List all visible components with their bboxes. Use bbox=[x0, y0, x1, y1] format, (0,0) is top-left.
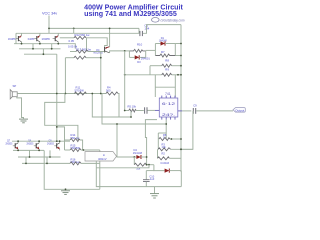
wire drop to C2 bbox=[138, 28, 140, 33]
transistor Q2 MJ2955 bbox=[34, 33, 40, 43]
capacitor C3 bbox=[145, 107, 155, 113]
wire bottom bank bus T1 bbox=[12, 140, 70, 142]
resistor R17 parallel bbox=[134, 157, 154, 166]
title text bbox=[84, 4, 183, 19]
svg-text:1N4148: 1N4148 bbox=[133, 151, 143, 155]
diode D1 bbox=[155, 41, 175, 45]
svg-text:C9: C9 bbox=[193, 104, 197, 108]
speaker SP1 bbox=[10, 84, 17, 99]
junction Q4 emitter rail bbox=[109, 28, 111, 30]
input net label box bbox=[85, 152, 117, 161]
wire bottom bank bus T2 bbox=[13, 149, 44, 151]
transistor Q7 2N3055 bbox=[13, 141, 18, 150]
svg-text:VCC 34v: VCC 34v bbox=[42, 12, 57, 16]
svg-text:1N4001: 1N4001 bbox=[141, 57, 151, 61]
svg-text:1uF: 1uF bbox=[150, 177, 155, 181]
svg-text:R8: R8 bbox=[165, 59, 169, 63]
wire bottom line bbox=[96, 161, 181, 187]
capacitor C2 bbox=[140, 24, 150, 36]
svg-text:SP: SP bbox=[13, 84, 17, 88]
wire op-amp output bbox=[182, 110, 191, 112]
svg-text:D3: D3 bbox=[137, 60, 141, 64]
junction dot Q4 line bbox=[124, 50, 126, 52]
wire top bus to speaker column V3 bbox=[56, 54, 58, 141]
wire D4 node down to R17 bbox=[146, 157, 148, 165]
svg-text:R12 560 1w: R12 560 1w bbox=[75, 33, 91, 37]
svg-text:circuitstoday.com: circuitstoday.com bbox=[161, 18, 185, 22]
wire long vertical V8 bbox=[124, 51, 126, 111]
wire to op-amp right bbox=[174, 75, 176, 97]
junction dots speaker line bbox=[56, 93, 58, 95]
resistor R6 bbox=[159, 138, 181, 141]
svg-text:R9: R9 bbox=[165, 68, 169, 72]
resistor R3 bbox=[158, 148, 193, 151]
wire VCC drop bbox=[48, 16, 50, 34]
wire bottom bank bus T4 bbox=[22, 162, 70, 164]
svg-text:1N4148: 1N4148 bbox=[159, 40, 168, 43]
ground 1 bbox=[19, 119, 28, 123]
diode D3 bbox=[129, 51, 145, 60]
svg-text:6·12: 6·12 bbox=[162, 102, 175, 106]
svg-text:104: 104 bbox=[144, 27, 149, 31]
svg-text:R2: R2 bbox=[162, 152, 166, 156]
wire bank bus2 bbox=[19, 48, 61, 50]
wire Q3 to R12 bbox=[60, 37, 74, 39]
svg-text:Output: Output bbox=[235, 108, 244, 112]
svg-text:D2 1N4148: D2 1N4148 bbox=[161, 162, 170, 165]
resistor R9 bbox=[124, 73, 181, 76]
svg-text:400mV: 400mV bbox=[98, 157, 107, 161]
wire V5 and y117 line bbox=[92, 94, 131, 118]
wire under input box bbox=[96, 165, 149, 168]
resistor R7 bbox=[155, 54, 175, 57]
wire ground1 stem bbox=[17, 97, 24, 119]
wire bank bus3 bbox=[24, 53, 57, 55]
wire R6 col top bbox=[158, 132, 166, 134]
ground 3 bbox=[150, 187, 159, 198]
wire ticks between buses bbox=[32, 44, 34, 49]
wire output feedback down-left bbox=[181, 111, 193, 149]
op-amp U1 DIP package bbox=[155, 96, 182, 120]
svg-text:R5 10k: R5 10k bbox=[128, 105, 137, 109]
capacitor C10 bbox=[143, 171, 155, 187]
wire IC pin1 down to D4 node bbox=[145, 120, 157, 157]
wire V10 staircase left bbox=[45, 94, 78, 141]
svg-text:R7: R7 bbox=[161, 50, 165, 54]
ticks bottom bank bbox=[29, 150, 31, 157]
svg-text:MJ2955: MJ2955 bbox=[8, 37, 16, 41]
wire op-amp top link bbox=[155, 86, 175, 88]
svg-text:24?.: 24?. bbox=[162, 113, 175, 117]
wire D1 loop right bbox=[174, 44, 176, 56]
wire V9 bbox=[100, 52, 102, 94]
wire input tip bbox=[117, 156, 137, 158]
resistor R5 bbox=[124, 109, 144, 112]
wire y127 branch bbox=[57, 127, 65, 150]
wire top bus of PNP bank bbox=[16, 32, 139, 34]
wire D1 loop left bbox=[154, 44, 156, 56]
wire op-amp pin4 drop bbox=[165, 120, 167, 139]
wire V7 to input tip bbox=[116, 124, 118, 157]
resistor R11 bbox=[74, 92, 86, 95]
svg-text:2N3055: 2N3055 bbox=[47, 143, 54, 145]
transistor Q4 MJ2955 driver bbox=[105, 28, 125, 52]
wire V6 staircase bbox=[102, 94, 166, 125]
wire to D1 column bbox=[146, 49, 156, 51]
diode D4 bbox=[136, 155, 146, 159]
wire C2 to rail B bbox=[143, 25, 181, 34]
watermark ellipse logo bbox=[152, 18, 185, 23]
resistor R10 bbox=[129, 49, 145, 52]
svg-text:2N3055: 2N3055 bbox=[27, 143, 34, 145]
svg-text:using 741 and MJ2955/3055: using 741 and MJ2955/3055 bbox=[84, 10, 177, 18]
wire V4 bbox=[64, 58, 66, 94]
transistor Q1 MJ2955 bbox=[16, 33, 22, 43]
svg-text:0.05: 0.05 bbox=[69, 39, 75, 43]
wire rail drop to bus bbox=[73, 28, 75, 33]
svg-text:MJ2955: MJ2955 bbox=[42, 37, 50, 41]
transistor Q8 2N3055 bbox=[34, 141, 39, 150]
wires from R9 line down to op-amp bbox=[154, 75, 156, 97]
wire tick bbox=[51, 44, 53, 49]
wire right drop to bottom bbox=[180, 171, 182, 187]
node output label bbox=[233, 108, 245, 113]
wire speaker line bbox=[17, 93, 106, 95]
capacitor C8 output bbox=[193, 104, 197, 114]
wire R12 box left vertical bbox=[86, 38, 88, 52]
resistor R14 bbox=[65, 139, 83, 151]
ground 2 bbox=[65, 188, 67, 190]
wire bank bus1 bbox=[14, 44, 75, 49]
resistor R15 bbox=[65, 149, 100, 164]
resistor R4 bbox=[106, 92, 119, 117]
wire bottom-left drop bbox=[44, 150, 100, 189]
svg-text:741: 741 bbox=[165, 92, 171, 96]
resistor R16 bbox=[70, 162, 100, 165]
junction R7 bus bbox=[180, 55, 182, 57]
svg-text:MJ2955: MJ2955 bbox=[94, 50, 104, 54]
wire bottom bank bus T3 bbox=[18, 156, 61, 158]
svg-text:MJ2955: MJ2955 bbox=[28, 37, 35, 41]
wire top rail A bbox=[49, 27, 139, 29]
wire output line bbox=[196, 110, 233, 112]
resistor R13b bbox=[70, 50, 104, 53]
wire R7 to bus bbox=[175, 55, 181, 57]
diode D2 bbox=[154, 165, 181, 173]
wire D1 to bus bbox=[175, 43, 181, 45]
wire right stub bottom bbox=[99, 163, 101, 189]
resistor R12 bbox=[74, 36, 86, 39]
transistor Q3 MJ2955 bbox=[53, 33, 59, 43]
svg-text:2N3055: 2N3055 bbox=[6, 143, 13, 145]
transistor Q9 2N3055 bbox=[54, 141, 59, 150]
wire Q4 collector line to R10 bbox=[125, 50, 130, 52]
wire tick bbox=[42, 49, 44, 54]
resistor R8 bbox=[150, 64, 181, 75]
junction dots right bus bbox=[180, 43, 182, 151]
resistor R2 bbox=[158, 149, 182, 160]
svg-text:R10: R10 bbox=[137, 42, 143, 46]
junction dots bottom bank bbox=[17, 140, 60, 164]
wire right bus bbox=[180, 25, 182, 172]
wire loop top edge to C10 bbox=[146, 170, 154, 172]
junction dots top bank bbox=[21, 28, 75, 56]
wire R12 to Q4 base from top bbox=[86, 38, 107, 47]
wire left edge drop bbox=[15, 33, 17, 43]
wire R13 line bbox=[65, 56, 100, 59]
